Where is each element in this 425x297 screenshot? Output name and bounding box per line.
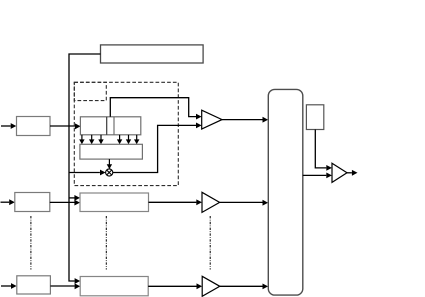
wire: filter-3 to amp-3 [148,283,202,289]
wire: reference box down to output amp upper input [315,130,332,171]
ellipsis line below row-2 filter box [105,216,107,270]
wire: input arrow row 3 [1,283,17,289]
wire: row-1 block to shift register [50,123,81,129]
top coefficient-update box [101,45,204,63]
wire: amp-2 output to combiner [220,200,269,206]
wire: amp-1 output to combiner [222,117,268,123]
input block row 2 [15,193,50,212]
ellipsis line below row-2 amp [209,216,211,270]
input block row 1 [17,117,51,136]
multiplier [106,169,113,176]
tap arrows from register to coefficient box [79,135,139,144]
amp buffer row 3 [202,276,220,296]
wire: bus tap to multiplier left input [69,170,106,176]
wire: register centre tap up and over to amp-1 upper input [110,98,201,120]
ellipsis line below row-2 input block [30,216,32,270]
combiner rounded block [268,89,303,295]
wire: coefficient box down to multiplier [107,159,112,169]
dashed adaptive-filter outer box [74,82,178,185]
wire: input arrow row 2 [1,199,15,205]
amp buffer row 1 [202,110,222,129]
wire: control bus from top box down the left side into row-3 filter [69,54,101,284]
input block row 3 [17,276,51,294]
wire: input arrow row 1 [1,123,16,129]
output amp [332,163,347,182]
wire: row-3 block to filter box [50,283,80,289]
wire: bus tap to row-2 filter upper input [69,195,80,201]
filter box row 2 [80,193,149,212]
filter box row 3 [80,277,148,296]
reference box top right [306,105,323,130]
wire: filter-2 to amp-2 [149,199,202,205]
wire: final output arrow [347,170,358,176]
dashed inner sub-box [74,82,106,100]
coefficient box [80,144,142,159]
wire: combiner output to output amp lower input [303,173,332,179]
wire: multiplier output up to amp-1 lower input [113,123,202,173]
wire: amp-3 output to combiner [220,284,268,290]
wire: row-2 block to filter box [50,200,80,206]
amp buffer row 2 [202,192,220,212]
shift register with centre tap cell [80,117,140,135]
